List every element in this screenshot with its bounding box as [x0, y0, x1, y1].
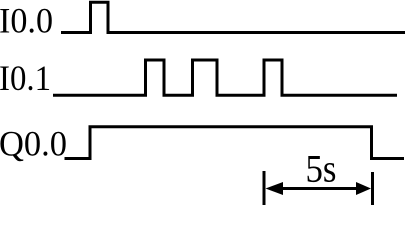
svg-text:5s: 5s	[306, 148, 337, 191]
svg-text:Q0.0: Q0.0	[0, 124, 67, 164]
svg-text:I0.1: I0.1	[0, 58, 51, 98]
svg-text:I0.0: I0.0	[0, 1, 53, 41]
